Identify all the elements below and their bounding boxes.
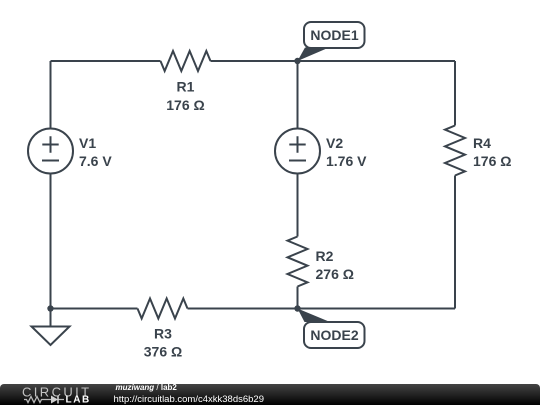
NODE2 callout pointer wedge [298,309,331,323]
NODE1 callout box [304,22,365,48]
svg-text:176 Ω: 176 Ω [473,153,511,169]
ground symbol stem [50,309,52,327]
wire: middle vertical between V2 and R2 [297,174,299,237]
wire: top horizontal right segment (R1 to top-right corner) [211,60,456,62]
wire: middle vertical lower (R2 to NODE2) [297,287,299,309]
wire: right vertical lower (R4 to bottom-right corner) [454,176,456,309]
svg-text:V1: V1 [79,135,96,151]
svg-text:V2: V2 [326,135,343,151]
svg-text:376 Ω: 376 Ω [144,344,182,360]
voltage source V2 minus sign [289,160,306,162]
svg-text:R1: R1 [177,79,195,95]
voltage source V2 plus sign [289,136,305,152]
voltage source V2 circle [275,129,320,174]
wire: middle vertical upper (NODE1 to V2 top terminal) [297,61,299,129]
svg-text:R3: R3 [154,326,172,342]
svg-text:7.6 V: 7.6 V [79,153,112,169]
voltage source V1 circle [28,129,73,174]
node junction dot NODE1 [294,58,300,64]
svg-text:276 Ω: 276 Ω [316,266,354,282]
logo diode symbol [46,399,65,401]
logo resistor zigzag [24,397,46,403]
CircuitLab logo [22,384,102,405]
node junction dot NODE2 [294,305,300,311]
footer credit bar [0,384,540,405]
node junction dot at ground / bottom-left [47,305,53,311]
voltage source V1 plus sign [42,136,58,152]
resistor R2 body (vertical zigzag) [288,237,308,287]
wire: left vertical lower (V1 bottom terminal to bottom wire) [50,174,52,309]
svg-text:NODE1: NODE1 [310,27,358,43]
svg-text:R4: R4 [473,135,491,151]
ground symbol triangle [32,327,70,346]
resistor R1 body (horizontal zigzag) [161,51,211,71]
wire: left vertical upper (corner down to V1 top terminal) [50,61,52,129]
svg-text:NODE2: NODE2 [310,327,358,343]
wire: right vertical upper (top-right corner to R4) [454,61,456,126]
credit line: url [114,395,265,405]
credit line: author / title [116,384,177,392]
resistor R3 body (horizontal zigzag) [138,299,188,319]
svg-text:1.76 V: 1.76 V [326,153,367,169]
svg-text:LAB: LAB [66,395,91,405]
resistor R4 body (vertical zigzag) [445,126,465,176]
svg-text:R2: R2 [316,248,334,264]
svg-text:176 Ω: 176 Ω [166,97,204,113]
wire: bottom horizontal left segment (ground node to R3) [51,308,138,310]
NODE1 callout pointer wedge [298,48,330,62]
voltage source V1 minus sign [42,160,59,162]
wire: top horizontal left segment (V1 top corner to R1) [51,60,161,62]
NODE2 callout box [304,322,365,348]
wire: bottom horizontal right segment (R3 to bottom-right corner) [188,308,456,310]
